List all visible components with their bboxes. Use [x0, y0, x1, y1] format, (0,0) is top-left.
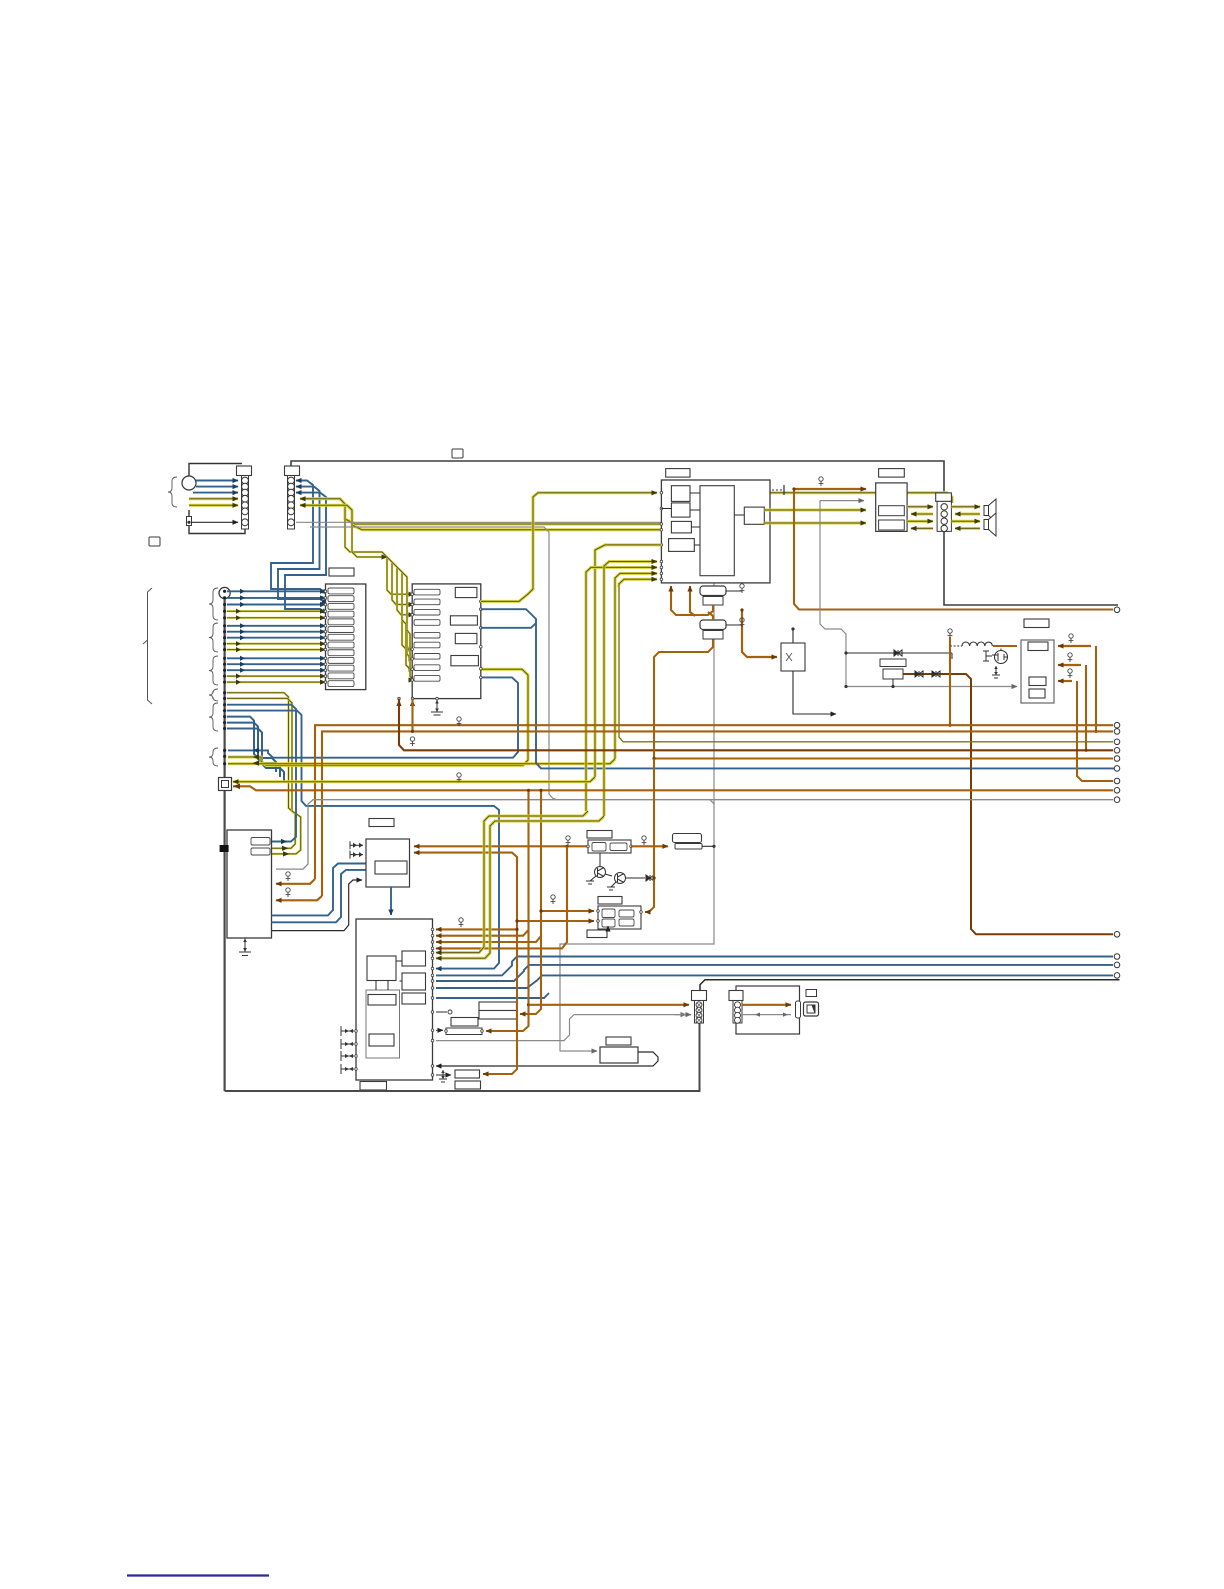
- LSI blue rail 965: [436, 965, 1113, 981]
- diode wire bottom: [903, 674, 1113, 934]
- LSI brown feeds: [436, 924, 517, 929]
- amp mute dashes: [772, 489, 783, 491]
- ground near pins: [439, 1070, 447, 1082]
- handset label: [237, 466, 252, 476]
- C2 feed to amp: [708, 612, 713, 620]
- video brown link: [742, 1004, 791, 1006]
- IC2 left pin boxes: [414, 589, 440, 595]
- diode box2 stub: [892, 679, 894, 687]
- Q1 emitter gnd: [590, 876, 596, 881]
- audio out left to v595: [595, 545, 661, 777]
- connector to speaker yellows: [951, 505, 980, 508]
- handset connector strip CN1: [242, 476, 249, 530]
- handset wires: [196, 480, 238, 482]
- group2 brown in2: [517, 920, 594, 922]
- AV switch yellow feeds: [345, 519, 414, 594]
- llb rect2: [251, 848, 270, 855]
- lower-left block outline: [227, 830, 272, 938]
- main interconnect line top: [291, 461, 1118, 605]
- note mark left: [149, 537, 160, 546]
- brown v654 continues: [653, 759, 655, 879]
- IC2 ground below: [431, 700, 443, 715]
- bus group braces: [209, 588, 218, 620]
- amp standby grey: [820, 500, 864, 502]
- olive rail 741: [655, 741, 1113, 743]
- long component 1028: [446, 1028, 482, 1035]
- strip1: [695, 1001, 704, 1024]
- sub block down blue: [390, 887, 392, 915]
- terminal brown934: [1114, 932, 1120, 938]
- C2 right stub: [726, 624, 742, 626]
- IC2 yellow out to audio in: [481, 493, 657, 602]
- comp group2 label: [598, 897, 622, 905]
- bus terminal circle: [219, 587, 230, 598]
- group2 brown in1: [541, 910, 594, 912]
- terminal blue956: [1114, 954, 1120, 960]
- control wire 2: [310, 527, 557, 800]
- comp group1 out: [631, 845, 668, 847]
- bottom footer line: [127, 1574, 269, 1576]
- terminal olive741: [1114, 739, 1120, 745]
- group2 bottom box: [587, 930, 607, 938]
- speaker bottom: [984, 513, 996, 536]
- strip1 grey in: [674, 1014, 691, 1016]
- main left bus line: [224, 599, 226, 1091]
- amp small box: [744, 507, 764, 524]
- big left bracket: [148, 588, 153, 704]
- power input testpoint: [948, 629, 953, 638]
- relay comp out to bus vertical: [702, 845, 714, 847]
- relay comp: [673, 834, 702, 843]
- page reference mark: [452, 449, 463, 458]
- amp inner box3: [671, 521, 691, 533]
- bus black mark: [220, 845, 229, 852]
- CN2 blue wire 1: [296, 481, 313, 558]
- left square connector: [219, 778, 232, 791]
- LSI blue stub: [436, 993, 549, 998]
- strip2 label: [729, 991, 743, 1001]
- audio out right top: [770, 493, 952, 503]
- LSI left T-bar inputs: [341, 1026, 354, 1036]
- IC1 label: [329, 568, 354, 576]
- lower outer box bottom: [225, 1023, 700, 1091]
- comp group1 label: [587, 831, 612, 839]
- terminal blue965: [1114, 962, 1120, 968]
- jumper C2: [700, 620, 726, 630]
- terminal brown750: [1114, 748, 1120, 754]
- power filter coil: [962, 642, 992, 646]
- terminal brown731: [1114, 729, 1120, 735]
- reg out2 brown: [1058, 664, 1081, 666]
- amp out relay block label: [879, 469, 905, 478]
- CN2 blue wire 2: [296, 487, 320, 563]
- brown rail 790 to left conn: [233, 786, 1113, 790]
- IC2 outline: [412, 584, 481, 699]
- IC2 pins: [411, 593, 414, 596]
- LSI box D: [402, 993, 426, 1004]
- IC1 pin boxes: [328, 588, 354, 594]
- diode wire top: [846, 652, 952, 654]
- terminal brown781: [1114, 778, 1120, 784]
- bus g6 yellow returns: [228, 669, 528, 765]
- llb outputs blue up to sub block: [272, 864, 372, 916]
- brown rail 758: [654, 757, 1113, 759]
- transistor Q1: [595, 867, 606, 878]
- brown rail 725: [315, 725, 1113, 879]
- amp out relay block: [876, 483, 907, 532]
- handset earpiece circle: [182, 476, 196, 490]
- LSI links: [375, 981, 377, 991]
- black top rail: [700, 980, 1120, 991]
- terminal brown758: [1114, 756, 1120, 762]
- LSI box F: [369, 1034, 394, 1046]
- main brown rail from amp: [794, 489, 1113, 610]
- diode net box1: [880, 659, 906, 667]
- terminal blue975: [1114, 973, 1120, 979]
- power input node: [949, 637, 951, 646]
- pins to box1070: [436, 1074, 451, 1076]
- box 1047: [600, 1047, 638, 1063]
- CN2 blue wire 3: [296, 493, 326, 569]
- chassis connector CN2 label: [285, 466, 300, 476]
- LSI box C: [402, 973, 426, 990]
- terminal blue768: [1114, 766, 1120, 772]
- LSI bottom label: [360, 1082, 387, 1091]
- C1 right stub: [726, 590, 742, 592]
- audio amp label: [666, 469, 690, 478]
- CN2 yellow wire 1 from audio out: [300, 499, 661, 524]
- handset unit outline: [189, 464, 242, 490]
- group2 brown in right: [645, 878, 654, 912]
- diode net box2: [883, 669, 903, 679]
- speaker connector strip: [937, 501, 951, 531]
- sub block brown in1: [414, 845, 587, 847]
- relay box mid: [781, 643, 805, 671]
- sub block outline: [366, 839, 410, 887]
- CN2 yellow wire 2 from audio out: [300, 505, 661, 530]
- power MOSFET Q: [995, 651, 1008, 664]
- relay stub top: [792, 629, 794, 643]
- comp group2 outline: [598, 906, 641, 929]
- speaker feed yellow pair: [764, 509, 866, 512]
- yellow long to square conn: [233, 777, 595, 782]
- box 1070: [455, 1070, 480, 1078]
- strip1 label: [692, 991, 707, 1001]
- LSI blue rail 956: [436, 957, 1113, 976]
- amp power brown feed: [794, 488, 866, 490]
- main LSI outline: [356, 919, 433, 1080]
- IC2 power stub2: [411, 699, 413, 732]
- chassis connector CN2 strip: [288, 476, 295, 530]
- terminal brown610: [1114, 607, 1120, 613]
- handset fuse: [187, 517, 192, 526]
- bus blue taps group1-3 to tuner IC: [227, 590, 326, 592]
- monitor icon: [804, 1002, 819, 1016]
- LSI yellow feeds: [436, 811, 588, 953]
- brown into comp1028: [486, 930, 529, 1031]
- IC2 blue outs down: [481, 609, 536, 628]
- relay feed brown: [742, 610, 777, 657]
- llb output black: [272, 880, 363, 931]
- llb rect1: [251, 838, 270, 846]
- bus yellow g4 to control block: [227, 693, 295, 849]
- grey loop to strip1: [436, 1015, 686, 1041]
- audio input four from below: [586, 567, 657, 811]
- brown rail 731: [322, 731, 1113, 896]
- llb ground: [239, 938, 251, 956]
- terminal brown790: [1114, 788, 1120, 794]
- box 1081: [455, 1081, 481, 1089]
- video grey link: [742, 1014, 791, 1016]
- LSI pin1012 node: [436, 1011, 447, 1013]
- amp internal links: [690, 492, 700, 494]
- video pill: [796, 1001, 801, 1018]
- loop wire: [436, 1052, 658, 1066]
- sub block inner: [375, 861, 407, 874]
- amp inner box1: [671, 486, 690, 502]
- CN2 control wire to main: [296, 522, 714, 1051]
- sub block brown in2: [414, 853, 517, 924]
- Q2 out diode: [626, 877, 646, 879]
- mosfet ground: [992, 666, 1000, 678]
- zener at gate: [983, 651, 989, 661]
- amp inner box4: [669, 539, 695, 552]
- LSI right edge pins: [431, 928, 434, 931]
- olive source from audio: [619, 583, 660, 742]
- jumper C1: [700, 586, 726, 596]
- amp inner box2: [671, 503, 690, 517]
- speaker top: [984, 499, 996, 522]
- handset brace: [168, 477, 177, 507]
- reg out1 brown: [1058, 645, 1091, 647]
- IC2 right boxes: [455, 587, 477, 597]
- box 1047 label: [606, 1037, 631, 1045]
- bus g6 blue return: [228, 677, 518, 757]
- speaker connector label: [936, 493, 952, 502]
- LSI box B: [402, 951, 426, 966]
- label box 1018: [451, 1018, 478, 1027]
- brown into deflection: [520, 936, 541, 1014]
- transistor Q2: [615, 873, 626, 884]
- dkbrown rail 750: [399, 699, 1113, 751]
- LSI box E: [368, 995, 396, 1006]
- IC1 outline: [326, 584, 366, 690]
- C1 feed to amp: [671, 586, 713, 615]
- LSI box A: [367, 956, 396, 981]
- relay stub bottom: [793, 671, 836, 714]
- relay to connector yellows: [907, 505, 933, 508]
- Q2 emitter gnd: [611, 882, 616, 887]
- LSI blue rail 975: [436, 975, 1113, 988]
- bus yellow taps group1-3 to tuner IC: [227, 610, 326, 612]
- terminal grey799: [1114, 797, 1120, 803]
- grey rail 799: [276, 800, 1113, 869]
- audio amp outline: [661, 480, 770, 583]
- grey rail from amp: [820, 501, 1017, 687]
- monitor icon box: [806, 990, 817, 997]
- brown to strip1: [529, 1004, 690, 1006]
- comp group1 outline: [588, 840, 631, 853]
- terminal brown725: [1114, 722, 1120, 728]
- power regulator box: [1021, 640, 1054, 703]
- video box outline: [736, 986, 800, 1034]
- amp left edge pins: [660, 492, 663, 495]
- power section label: [1024, 619, 1049, 628]
- strip2lower: [733, 1001, 742, 1024]
- reg out3 brown: [1058, 680, 1072, 682]
- amp tall box: [700, 486, 734, 576]
- deflection comp double box: [479, 1002, 517, 1011]
- bus blue g5 taps: [227, 705, 296, 842]
- sub block label: [369, 819, 394, 827]
- sub block input markers: [350, 844, 363, 846]
- brown into box1070: [483, 929, 517, 1074]
- IC1 input pins: [324, 590, 327, 593]
- brown rail758 source: [654, 639, 713, 759]
- power main vertical: [949, 646, 951, 725]
- LSI sub container: [366, 990, 400, 1058]
